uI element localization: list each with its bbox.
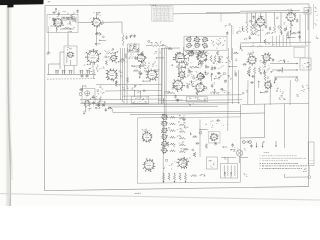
resistor R26 [170,116,176,118]
resistor R21 [253,67,255,74]
node audio labels [245,20,257,23]
wire H bus y84 [96,83,162,86]
wire cluster box1 interior parts [49,16,75,24]
node rf extra specks [86,66,141,90]
inductor T5 winding 1 [223,166,226,176]
node speaker [236,150,242,156]
node right small cluster [301,85,309,92]
wire inside box1 [50,24,74,30]
node audio extra specks [251,29,275,47]
node far right cluster [226,57,232,64]
tube V14 small [178,71,186,79]
wire bottom frame border [45,187,309,191]
wire inner vert x163 [162,118,164,183]
node right margin specks [316,36,319,39]
node note header [264,151,269,154]
wire V7 cathode [92,63,94,69]
tube V9 small [110,55,117,62]
node V6 label [287,9,293,11]
node small part a [224,172,226,178]
node col specks [97,86,104,95]
wire arrows feed [270,64,288,78]
node arrow labels [278,60,289,62]
wire cluster rect wiring [242,90,299,100]
tube T3 osc coil circle [85,91,90,96]
tube V7 12BA6 IF amp [85,49,101,65]
wire cluster mixer wiring [95,32,106,44]
resistor R37 [184,173,186,182]
node between V16 V17 [186,83,195,87]
box tuner shield [47,15,78,33]
resistor R4 [152,45,161,47]
node small part b [230,172,232,178]
wire V5 leads [261,9,292,43]
wire cluster detector wiring lower [172,71,237,96]
resistor R211 [170,150,176,152]
node notes line 3 [260,159,289,162]
box oscillator module [82,89,95,104]
node V7 left labels [84,64,89,65]
tube V27 [210,133,219,141]
node 5Y3 label [233,147,239,152]
wire vert x200 [199,120,201,158]
wire box right edge up [240,104,242,117]
node mid row specks [187,71,198,76]
wire box1 to V2 link [78,21,93,23]
page bottom edge shadow [0,194,320,201]
wire R4 leads [146,45,166,47]
tube V25 phono [142,131,153,143]
resistor R24 [84,102,86,108]
node row labels e [200,174,206,176]
wire box1 down lead [67,33,69,47]
wire audio drop d5 [286,35,288,47]
wire speaker lead [239,156,241,163]
wire cluster det gap2 [204,73,230,91]
node center extra specks [176,62,224,84]
wire right vert 238 [237,70,239,104]
node R4 labels [155,42,162,44]
node notes line 2 [260,157,307,160]
box tone switch [304,8,311,14]
resistor R6 [250,24,252,33]
wire left link [49,64,61,75]
node V8 labels [116,70,123,73]
wire dial lamp dashed column [231,25,233,60]
tube V2 oscillator section [91,17,101,27]
wire H y137 [241,137,265,139]
wire H bus y96 [122,95,162,97]
wire IF box bottom parts [186,50,209,55]
wire T5 top lead [221,157,236,163]
wire row link 6 [179,148,186,152]
resistor R22 [258,67,260,74]
resistor R33 [162,173,164,182]
resistor R5 [246,24,248,33]
node tuner label row [53,9,79,19]
wire cluster audio left gap [244,33,257,40]
box phono jack [308,142,314,166]
node notes line 6 [260,167,303,170]
resistor R34 [168,173,170,180]
wire H bus y103 [80,103,240,104]
wire coil box leads [60,52,70,69]
tube V10 [136,52,145,63]
node cluster above dashes [236,27,245,34]
node V7 label [90,49,97,52]
wire tone sw leads [306,14,309,45]
wire arrow down b [262,143,264,148]
resistor R2 [63,27,71,29]
capacitor C6 gang pair [79,70,83,74]
node mid row specks2 [206,72,220,78]
tube V25 small [161,141,168,147]
wire IF line [101,22,123,33]
node footer page number [135,192,142,195]
wire row link 5 [179,142,186,146]
node IF box labels [211,38,224,48]
node bus top specks [129,51,135,60]
wire vert x254 down [253,74,255,104]
wire audio drop d6 [289,35,291,47]
wire heater bus [206,11,240,13]
tube V1 12BE6 converter [53,18,62,28]
wire cluster outstage gap [285,19,300,39]
wire H bus y90 [105,90,162,93]
node midband extra specks [107,56,157,72]
wire H y104 [96,104,228,105]
wire x228 vert ext [227,104,229,131]
node IF box inner extra [193,38,225,47]
wire left frame border [44,6,46,191]
wire arrow right 2 [288,69,298,71]
wire cluster phono left wiring [163,119,197,169]
wire R10 down [93,76,95,79]
capacitor C15 [80,75,84,77]
resistor R11 [107,52,116,54]
node V28 parts [182,157,190,160]
node V18 labels [247,53,253,55]
wire cluster osc bottom wiring [79,85,125,103]
wire cluster IF can wiring [128,34,139,52]
wire cluster audio driver wiring [243,51,298,88]
resistor R7 [254,25,256,33]
wire B+ bus top [173,12,309,14]
tube V13 [196,51,207,62]
wire arrow lowleft [83,111,85,114]
capacitor C12 [265,25,267,29]
black scan bar top-left [0,0,44,8]
node lowleft more [84,101,104,108]
node pilot lamp 2 [249,141,252,144]
node V5 label [258,16,264,18]
wire H line y95 [158,94,242,97]
resistor R25 [88,102,90,108]
node antenna label specks [52,11,66,13]
wire V2 lower lead [97,33,102,46]
wire row link 4 [177,135,186,139]
wire cluster output stage wiring [242,15,297,43]
wire antenna down [47,26,49,52]
capacitor C13 [269,27,271,31]
resistor R38 [191,175,198,177]
wire cluster det gap1 [178,58,204,74]
wire vert x248 down [247,80,249,104]
resistor R15 [214,55,216,62]
wire center vert bus a [161,48,163,104]
resistor R3 [122,33,124,46]
wire audio bus2 [240,45,308,48]
node above V9 [104,50,118,53]
wire feed line to IF box [161,47,184,58]
table tube socket voltage chart [152,6,173,22]
resistor R27 [170,123,176,125]
resistor R29 [170,136,176,138]
capacitor C1 trimmer set [63,17,73,22]
capacitor C17 [205,65,207,69]
wire audio drop d1 [272,36,274,47]
wire arrow down pilot [275,141,277,147]
wire cluster det gap3 [163,91,183,104]
resistor R16 [176,66,185,68]
wire row link 3 [177,128,186,132]
wire vertical bus3 [124,48,126,100]
wire row link 2 [178,122,186,126]
resistor R9 [280,27,282,35]
tube V11 starburst [146,69,158,82]
wire H line y104 [242,103,309,104]
wire V2 top lead [96,12,98,18]
resistor R20 [248,66,250,77]
wire bus drop right [220,14,222,23]
node IF can top labels [225,24,231,36]
capacitor C8 padder squiggle [96,65,98,73]
wire arrow into V5 [239,44,243,51]
box right module [300,58,311,70]
capacitor C14 [284,28,286,32]
wire vert x284 [284,104,286,148]
page left gutter shadow [6,0,13,206]
node between specks [154,51,161,53]
wire vertical bus1 [119,48,121,100]
wire arrow down a [256,143,258,148]
wire H y106 [108,105,218,108]
capacitor C19 [92,101,94,105]
wire vertical bus2 [121,48,123,102]
resistor R12 [139,64,141,69]
wire cluster pilot wiring [244,141,265,151]
node right of V13 [217,56,223,64]
node notes line 4 [260,162,299,165]
node V2 label specks [93,12,101,16]
inductor L1 [66,57,69,63]
node notes line 5 [260,165,308,168]
wire lower links [241,157,249,176]
tube V26 phono2 [142,158,155,172]
tube V8 osc starburst [106,69,118,82]
node box1 bottom specks [56,27,75,32]
node under V20 [276,88,284,94]
wire cluster detector wiring upper [168,48,238,73]
wire right vert 232 [231,48,233,104]
wire H bus y99 [80,98,162,101]
node right of osc box [94,96,98,99]
resistor R13 [139,71,141,79]
tube V24 small [161,134,167,140]
node phono extra specks [169,121,229,170]
wire audio drop d3 [279,35,281,47]
resistor R28 [170,130,176,132]
wire audio drop d2 [275,36,277,47]
wire cluster tuner box wiring [52,17,75,32]
resistor R23 [264,74,266,81]
node antenna terminal [47,52,51,55]
wire audio right vert [299,14,301,42]
node R3 labels [129,35,133,37]
node row y93 [222,90,231,94]
node header specks by bar [48,1,50,2]
box IF transformer T2 [128,44,140,52]
inductor T5 winding 3 [230,166,233,176]
wire vert x264 [264,104,266,138]
wire right frame border [308,4,310,187]
wire audio drop d4 [282,35,284,47]
wire box2 legs [65,66,75,75]
wire center vert bus c [165,48,167,118]
wire arrow right 3 [288,76,298,78]
node osc box specks [84,97,93,102]
node hline labels [187,104,194,106]
resistor R1 [74,17,76,23]
box T5 output transformer [221,164,238,179]
resistor R14 [210,55,212,62]
capacitor C2 [95,32,97,36]
wire audio bottom bus [240,41,311,44]
node T2 inner marks [129,44,136,52]
resistor R18 [167,92,175,94]
capacitor C4 gang pair [62,70,66,74]
tube V12 12AV6 det [173,52,187,65]
resistor R19 [210,92,218,94]
tube V28 [177,157,189,169]
box selenium rect label [186,97,207,102]
tube V23 small [161,127,168,133]
wire gang mechanical link dashed [47,78,96,80]
wire cluster osc top wiring [134,51,164,64]
node V12 top cluster [185,49,195,55]
wire vert x270 down [269,80,271,105]
tube V17 [195,82,206,93]
wire cluster phono mid extra [193,129,208,157]
tube V20 small [264,81,272,90]
capacitor C18 [211,67,213,71]
capacitor C3 gang pair [55,70,59,74]
tube V18 [247,55,257,65]
wire V2 down lead [96,27,98,34]
capacitor C7 gang pair [86,70,90,74]
tube V5 50C5 output [255,16,265,27]
box T4 interstage [207,157,218,169]
node lower-left labels2 [85,108,92,111]
wire box1 top lead [55,8,68,14]
tube V22 small [161,121,167,127]
wire cluster IF input wiring [105,48,127,65]
box oscillator coil [64,46,77,65]
tube V3 IF transformer cans [186,36,208,48]
wire H line y100 [158,99,242,102]
wire cluster audio gap [262,61,277,83]
capacitor C11 [125,36,127,40]
wire heater drops [247,12,281,27]
wire vertical bus4 [126,48,128,104]
resistor R8 [273,25,275,33]
resistor R210 [170,143,176,145]
capacitor C5 gang pair [69,70,73,74]
resistor R36 [179,173,181,180]
wire H y114 [130,113,265,115]
box selenium label left [132,96,149,104]
tube V16 [172,79,185,92]
box IF amp shield [184,36,227,50]
wire center vert bus b [163,48,165,118]
tube T1 osc coil [67,52,74,58]
wire AVC bus [240,10,300,13]
node frame top label [150,5,156,6]
wire cluster det left wiring [131,85,145,98]
tube V19 [262,53,272,62]
node R20 col labels [262,65,270,72]
wire x228 vert [227,48,229,104]
resistor R17 [190,66,199,68]
node R12 labels [143,65,148,72]
node coil box labels [67,47,72,50]
wire cluster lowleft wiring [85,102,112,113]
wire arrow right 1 [288,63,298,65]
node pilot lamp 1 [242,141,245,144]
tube V26 small [161,147,168,153]
capacitor C16 [85,75,89,77]
wire jack lead [285,166,310,178]
tube V6 rect [285,12,296,22]
wire vert x290 down [289,80,291,105]
node right margin fold line [313,4,318,29]
inductor T5 winding 4 [234,166,237,176]
resistor R35 [173,173,175,182]
tube V4 det cluster below [187,50,203,57]
box audio-phono section [138,117,241,183]
wire top frame border [45,4,309,6]
node under V6 [286,24,293,28]
node mid audio specks [265,32,273,35]
box V27 module [209,132,221,144]
node jack circle [303,168,311,178]
node tube2 labels [90,17,104,25]
tube V21 small [161,114,167,120]
resistor R10 [92,69,94,76]
wire curve down [108,107,241,113]
box audio right module A [294,47,305,58]
inductor T5 winding 2 [227,166,230,176]
node V25 label [142,129,150,131]
tube V15 small [196,72,204,81]
wire cluster volume wiring [148,40,164,46]
wire cluster IF mid wiring [115,65,160,87]
wire cluster phono right wiring [205,119,235,159]
wire right verts [159,48,162,104]
wire row link 1 [179,115,186,119]
wire tuning gang bus [47,73,96,75]
node notes line 1 [260,154,298,157]
